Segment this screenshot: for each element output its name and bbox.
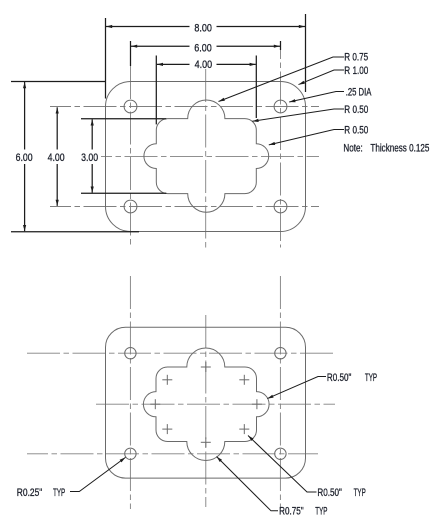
hole top-right (bottom view) (275, 348, 286, 359)
leader R 0.50 to side bump (269, 130, 344, 146)
svg-text:TYP: TYP (354, 487, 366, 499)
dimension 6.00 line and arrows (131, 45, 280, 48)
svg-text:R0.50": R0.50" (327, 372, 352, 384)
center mark right bump (252, 399, 262, 409)
dimension 6.00 left extension lines (11, 82, 139, 232)
centerline vertical middle (top view) (205, 69, 207, 248)
hole bottom-left (bottom view) (125, 448, 136, 459)
leader R 1.00 to plate corner (299, 70, 345, 85)
centerline vertical middle (bottom view) (205, 315, 207, 507)
plate outline (bottom view) (106, 327, 306, 478)
central clover cutout (bottom view) (143, 348, 269, 461)
svg-text:TYP: TYP (365, 372, 377, 384)
center mark cutout top-right fillet (239, 375, 249, 385)
dimension 6.00 left line and arrows (23, 82, 26, 231)
svg-text:R0.75": R0.75" (279, 506, 304, 518)
dimension 4.00 left line and arrows (56, 107, 59, 206)
svg-text:.25 DIA: .25 DIA (346, 86, 372, 98)
centerline horizontal middle (bottom view) (96, 403, 335, 405)
dimension 8.00 line and arrows (106, 25, 305, 28)
center mark bottom bump (201, 437, 211, 447)
dimension 6.00 extension segments (131, 41, 281, 66)
centerline horizontal top hole row (bottom view) (27, 352, 335, 354)
svg-text:6.00: 6.00 (194, 43, 212, 55)
hole bottom-right (bottom view) (275, 448, 286, 459)
svg-text:Thickness 0.125: Thickness 0.125 (370, 142, 429, 154)
central clover cutout (top view) (144, 100, 269, 212)
plate outline (top view) (106, 82, 306, 232)
leader .25 DIA to hole (289, 92, 344, 103)
dimension 3.00 line and arrows (91, 119, 94, 192)
leader R 0.75 to top bump (219, 57, 345, 102)
center mark cutout bottom-right fillet (239, 424, 249, 434)
centerline horizontal bottom hole row (top view) (50, 206, 319, 208)
hole bottom-left (top view) (124, 200, 137, 213)
svg-text:TYP: TYP (53, 487, 65, 499)
dimension 4.00 extension lines (156, 56, 256, 125)
svg-text:TYP: TYP (315, 506, 327, 518)
svg-text:4.00: 4.00 (48, 152, 65, 164)
centerline horizontal middle (top view) (101, 155, 319, 157)
svg-text:8.00: 8.00 (194, 23, 212, 35)
hole top-right (top view) (274, 100, 287, 113)
svg-text:R 0.50: R 0.50 (344, 124, 368, 136)
leader R0.25 TYP to hole (70, 457, 126, 491)
centerline horizontal bottom hole row (bottom view) (27, 453, 318, 455)
hole bottom-right (top view) (274, 200, 287, 213)
dimension 4.00 line and arrows (157, 63, 256, 66)
centerline vertical left hole column (bottom view) (129, 276, 131, 509)
hole top-left (bottom view) (125, 348, 136, 359)
centerline horizontal top hole row (top view) (50, 106, 319, 108)
svg-text:R0.25": R0.25" (17, 487, 43, 499)
leader R0.75 TYP to bottom bump (217, 457, 279, 511)
centerline vertical right hole column (top view) (280, 50, 282, 248)
center mark cutout top-left fillet (162, 375, 172, 385)
centerline vertical right hole column (bottom view) (279, 276, 281, 509)
svg-text:6.00: 6.00 (16, 152, 33, 164)
leader R0.50 TYP to right bump (267, 377, 326, 399)
leader R 0.50 to cutout corner (252, 109, 344, 122)
center mark top bump (201, 362, 211, 372)
svg-text:3.00: 3.00 (81, 152, 98, 164)
svg-text:4.00: 4.00 (195, 59, 213, 71)
svg-text:Note:: Note: (343, 142, 362, 154)
svg-text:R0.50": R0.50" (317, 487, 342, 499)
leader R0.50 TYP to cutout corner (248, 436, 317, 493)
center mark left bump (150, 399, 160, 409)
svg-text:R 0.75: R 0.75 (344, 51, 368, 63)
center mark cutout bottom-left fillet (162, 424, 172, 434)
svg-text:R 1.00: R 1.00 (344, 65, 368, 77)
dimension 8.00 extension lines (106, 14, 306, 99)
centerline vertical left hole column (top view) (130, 66, 132, 248)
svg-text:R 0.50: R 0.50 (344, 104, 368, 116)
dimension 3.00 extension lines (81, 119, 166, 193)
hole top-left (top view) (124, 100, 137, 113)
